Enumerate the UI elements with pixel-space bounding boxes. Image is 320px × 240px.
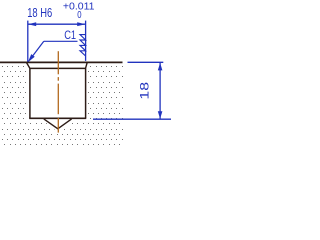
svg-text:18 H6: 18 H6 bbox=[27, 5, 52, 20]
svg-text:C1: C1 bbox=[64, 28, 76, 42]
svg-text:18: 18 bbox=[138, 82, 152, 100]
svg-text:0: 0 bbox=[77, 10, 82, 21]
